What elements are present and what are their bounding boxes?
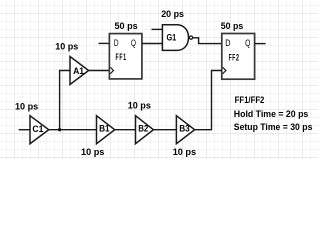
svg-text:10 ps: 10 ps [81, 147, 104, 157]
svg-text:1: 1 [123, 52, 126, 62]
svg-text:FF1/FF2: FF1/FF2 [235, 95, 265, 105]
svg-text:Hold Time = 20 ps: Hold Time = 20 ps [234, 109, 308, 119]
svg-text:50 ps: 50 ps [221, 21, 243, 31]
buffer B3 [176, 116, 194, 144]
svg-text:A1: A1 [73, 66, 84, 76]
svg-text:D: D [225, 38, 231, 48]
buffer B1 [97, 116, 115, 144]
wire: A1 output to FF1 clock [89, 70, 110, 72]
flip-flop FF2 [222, 34, 255, 80]
svg-text:D: D [114, 38, 119, 48]
svg-text:Setup Time = 30 ps: Setup Time = 30 ps [234, 122, 313, 132]
wire: FF1 Q to G1 lower input [142, 43, 163, 45]
svg-text:Q: Q [131, 38, 136, 48]
flip-flop FF1 [109, 34, 141, 79]
wire: B3 output up to FF2 clock [195, 71, 222, 130]
node: clock junction [58, 128, 61, 131]
svg-text:10 ps: 10 ps [128, 101, 151, 111]
wire: junction up to A1 input [60, 71, 71, 131]
buffer C1 [30, 116, 49, 144]
svg-text:50 ps: 50 ps [115, 21, 138, 31]
svg-text:F: F [119, 52, 122, 62]
nand gate G1 [162, 25, 192, 51]
svg-text:10 ps: 10 ps [173, 147, 196, 157]
buffer A1 [70, 57, 89, 85]
svg-text:C1: C1 [32, 124, 43, 134]
wire: G1 upper input stub [152, 28, 163, 30]
svg-text:10 ps: 10 ps [15, 102, 38, 112]
buffer B2 [136, 116, 154, 144]
svg-text:B3: B3 [179, 124, 190, 134]
wire: input stub into C1 [19, 129, 30, 131]
svg-text:F: F [116, 52, 119, 62]
wire: G1 output to FF2 D input [193, 38, 222, 44]
svg-text:20 ps: 20 ps [161, 9, 184, 19]
svg-text:2: 2 [236, 52, 239, 62]
svg-text:10 ps: 10 ps [55, 42, 78, 52]
wire: FF2 Q output stub [255, 43, 266, 45]
svg-text:Q: Q [245, 38, 250, 48]
wire: B2 output to B3 input [153, 129, 176, 131]
svg-text:G1: G1 [167, 33, 177, 43]
svg-text:B1: B1 [99, 124, 110, 134]
wire: FF1 D input stub [99, 42, 110, 44]
svg-text:B2: B2 [138, 124, 148, 134]
wire: C1 output to B1 input [49, 129, 97, 131]
wire: B1 output to B2 input [115, 129, 136, 131]
